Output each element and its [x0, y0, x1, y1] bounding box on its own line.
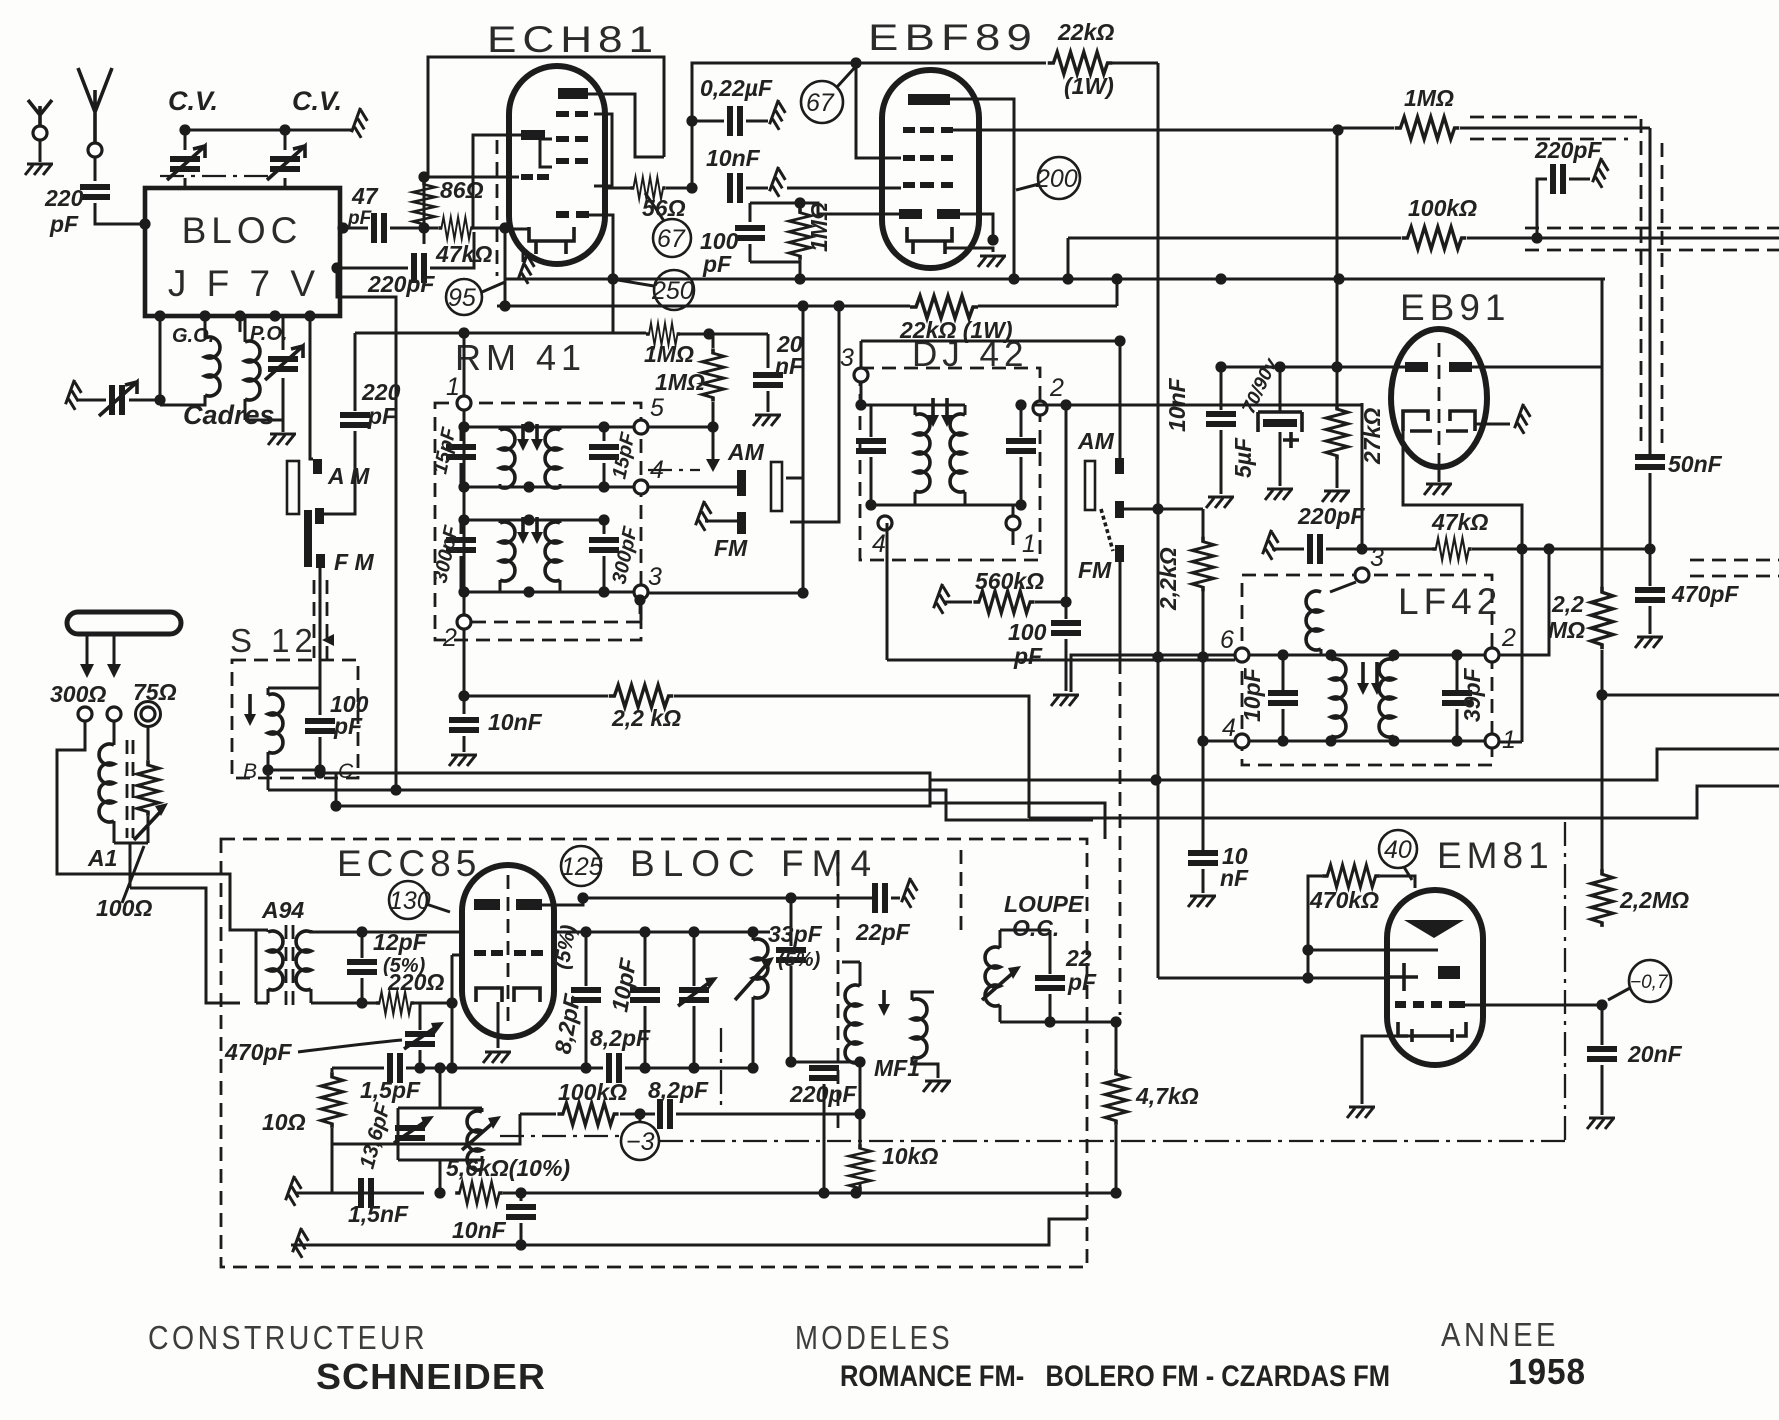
AF line right	[1602, 694, 1779, 697]
svg-text:O.C.: O.C.	[1012, 915, 1059, 941]
g2 wire left	[856, 63, 901, 158]
terminal 6	[1235, 648, 1249, 662]
svg-text:33pF: 33pF	[768, 921, 823, 947]
wire 5 to grid resistor	[648, 426, 713, 429]
AVC return line	[946, 749, 1779, 780]
diode cathodes	[1403, 411, 1475, 431]
capacitor 10pF	[1282, 655, 1285, 690]
contact AM	[1115, 458, 1124, 474]
svg-text:220pF: 220pF	[367, 271, 435, 297]
resistor 47k ohm det	[1432, 538, 1471, 560]
variable capacitor cadres	[112, 385, 122, 415]
S12 link top	[268, 687, 320, 690]
svg-text:EB91: EB91	[1400, 287, 1511, 328]
resistor 56 ohm	[604, 187, 632, 190]
resistor 100k bias	[520, 1113, 556, 1116]
anode bar	[908, 94, 950, 105]
bloc output stub 2 + capacitor 220pF	[340, 267, 408, 270]
coil 2b	[545, 522, 560, 581]
terminal 2	[1033, 401, 1047, 415]
grid dashes row2	[556, 136, 569, 142]
svg-text:EBF89: EBF89	[868, 17, 1038, 58]
A94 secondary coil	[296, 931, 311, 990]
variable capacitor C.V. 1	[184, 130, 187, 188]
svg-text:C.V.: C.V.	[168, 86, 218, 116]
arrows 1	[523, 424, 537, 444]
grid in wires	[1158, 950, 1438, 978]
terminal 75	[141, 707, 155, 721]
svg-text:560kΩ: 560kΩ	[975, 568, 1044, 594]
bottom rail	[291, 1219, 1087, 1245]
circle 67b	[801, 81, 843, 123]
svg-text:6: 6	[1220, 626, 1234, 654]
resistor 100k ohm	[1402, 227, 1467, 249]
cathode to ground wire	[945, 248, 993, 252]
AM feed wire	[1119, 341, 1122, 458]
svg-text:125: 125	[561, 853, 603, 881]
pot arrow	[134, 810, 162, 840]
capacitor 470pF trim	[419, 1003, 422, 1030]
svg-text:40: 40	[1384, 836, 1412, 864]
svg-text:12pF: 12pF	[373, 929, 428, 955]
circle 250	[654, 270, 694, 310]
inner dashed partition	[837, 850, 840, 1130]
svg-text:1: 1	[1022, 530, 1036, 558]
capacitor 10nF osc	[506, 1207, 536, 1217]
hatched link	[1101, 509, 1113, 551]
capacitor 300pF right	[589, 540, 619, 550]
terminal B	[262, 764, 273, 775]
svg-text:AM: AM	[1077, 428, 1115, 454]
plus electrode	[1390, 963, 1418, 991]
svg-text:pF: pF	[1067, 969, 1097, 995]
osc tap	[439, 1068, 442, 1108]
resistor 4,7k ohm	[1105, 1069, 1127, 1125]
svg-text:100: 100	[1008, 619, 1047, 645]
svg-text:100kΩ: 100kΩ	[558, 1079, 627, 1105]
wire terminal3 down	[239, 316, 242, 332]
svg-text:1958: 1958	[1508, 1351, 1586, 1392]
g wire from frame	[428, 176, 519, 179]
tube ECC85	[462, 865, 554, 1037]
osc tank loop	[398, 1108, 482, 1160]
anode bars	[474, 899, 500, 910]
plate wire left	[1221, 366, 1405, 369]
svg-text:RM 41: RM 41	[455, 337, 586, 378]
RF section caps	[554, 931, 770, 934]
circle 67	[653, 219, 691, 257]
cathode row drops	[580, 1062, 591, 1073]
feeder outer	[57, 721, 256, 930]
g3 dashes	[903, 127, 915, 133]
A1 core dashes	[127, 740, 133, 838]
svg-text:pF: pF	[1013, 643, 1043, 669]
feeder inner	[130, 888, 240, 1003]
diode detector route	[1403, 431, 1522, 742]
capacitor 8,2pF series	[609, 1053, 619, 1083]
circle -0,7	[1629, 960, 1671, 1002]
bus riser left to 220pF	[354, 333, 357, 411]
dash-dot bias line	[500, 1136, 1565, 1141]
row drop wire	[589, 215, 613, 334]
dipole stadium	[67, 612, 181, 634]
contact mid	[1115, 501, 1124, 518]
tube ECH81	[509, 66, 605, 264]
svg-text:LOUPE: LOUPE	[1004, 891, 1084, 917]
resistor 560k ohm	[933, 584, 953, 614]
cathode ground	[505, 228, 530, 231]
bundle line 3	[336, 780, 948, 806]
cell1 bottom wire / terminal 4	[464, 486, 634, 489]
A1 coil	[113, 721, 116, 745]
svg-text:10Ω: 10Ω	[262, 1109, 306, 1135]
grid dashes row1	[556, 111, 569, 117]
circle 200	[1038, 157, 1080, 199]
svg-text:22kΩ: 22kΩ	[1057, 19, 1114, 45]
capacitor 12pF	[361, 932, 364, 958]
shield dashes right mid	[1690, 560, 1779, 576]
terminal 1	[1006, 516, 1020, 530]
capacitor 8,2pF af	[660, 1099, 670, 1129]
svg-text:5: 5	[650, 394, 664, 422]
svg-text:pF: pF	[49, 211, 79, 237]
svg-text:F M: F M	[334, 549, 374, 575]
screen riser	[1116, 279, 1119, 306]
center dashed	[507, 875, 510, 1028]
capacitor 1,5pF	[390, 1053, 400, 1083]
cathode rail	[311, 1002, 377, 1005]
deflector bar	[1438, 966, 1460, 979]
circle 95	[446, 279, 482, 315]
g1 dashes	[903, 182, 915, 188]
screen wire right	[953, 129, 1338, 132]
dash-dot AGC line	[648, 469, 700, 471]
antenna terminal	[88, 143, 102, 157]
cathode EBF89	[907, 227, 952, 254]
triode grid bar	[521, 130, 545, 140]
terminal 300b	[107, 707, 121, 721]
terminal 2	[1485, 648, 1499, 662]
svg-text:ROMANCE FM- BOLERO FM - CZAR: ROMANCE FM- BOLERO FM - CZARDAS FM	[840, 1360, 1390, 1393]
S12 dashed box	[232, 660, 358, 778]
center dashed	[1438, 343, 1441, 478]
svg-text:86Ω: 86Ω	[440, 177, 484, 203]
svg-text:0,22µF: 0,22µF	[700, 75, 773, 101]
node row top	[1249, 654, 1485, 657]
terminal 3	[1355, 568, 1369, 582]
svg-text:10pF: 10pF	[1239, 667, 1265, 722]
resistor 470k ohm	[1322, 865, 1380, 887]
svg-text:CONSTRUCTEUR: CONSTRUCTEUR	[148, 1319, 428, 1356]
svg-text:220Ω: 220Ω	[387, 969, 444, 995]
svg-text:22pF: 22pF	[855, 919, 911, 945]
target triangle	[1404, 920, 1464, 938]
B+ dropper vertical	[1157, 63, 1160, 978]
capacitor 300pF left	[446, 540, 476, 550]
top coupling wire	[692, 63, 856, 188]
wire terminal5 down to AM switch	[309, 316, 312, 452]
B+ bus	[497, 305, 1117, 308]
resistor 2,2M ohm em	[1591, 869, 1613, 927]
svg-text:pF: pF	[333, 713, 363, 739]
node row bottom	[1249, 740, 1485, 743]
terminal 2	[457, 615, 471, 629]
wire from 4	[1203, 740, 1235, 743]
cathode ground em	[1362, 1036, 1412, 1104]
lower dashes row	[556, 211, 569, 218]
svg-text:S 12: S 12	[230, 622, 318, 659]
FM bar contact	[304, 510, 312, 567]
svg-text:AM: AM	[727, 439, 765, 465]
svg-text:2: 2	[1049, 374, 1064, 402]
dash-dot gang line	[160, 175, 272, 177]
resistor 1M ohm AVC	[646, 323, 680, 345]
svg-text:220pF: 220pF	[1297, 503, 1365, 529]
anode bar	[558, 88, 588, 99]
svg-text:470pF: 470pF	[1671, 581, 1739, 607]
svg-text:J F 7 V: J F 7 V	[168, 263, 320, 304]
svg-text:470pF: 470pF	[224, 1039, 292, 1065]
svg-text:A94: A94	[261, 897, 304, 923]
A94 primary coil	[256, 930, 268, 1003]
cathode ground	[497, 1002, 500, 1048]
svg-text:10nF: 10nF	[488, 709, 543, 735]
svg-text:2: 2	[1501, 624, 1516, 652]
svg-text:BLOC FM4: BLOC FM4	[630, 843, 879, 884]
svg-text:95: 95	[448, 284, 476, 312]
DJ42 dashed box	[860, 368, 1040, 560]
svg-text:300Ω: 300Ω	[50, 681, 106, 707]
svg-text:SCHNEIDER: SCHNEIDER	[316, 1356, 546, 1397]
detector node drop	[1060, 399, 1071, 410]
svg-text:220: 220	[361, 379, 401, 405]
ECH81 frame wire	[428, 57, 664, 177]
node top row	[861, 404, 965, 407]
svg-text:MΩ: MΩ	[1548, 617, 1585, 643]
grid out wire	[1465, 1004, 1602, 1007]
antenna mast symbol	[78, 68, 112, 146]
grid dashed line	[496, 140, 499, 276]
grid dashes row3	[556, 158, 569, 164]
FM drop	[319, 568, 322, 688]
capacitor 100pF det	[1051, 623, 1081, 633]
resistor 10 ohm	[331, 1068, 334, 1072]
capacitor 20nF	[767, 334, 770, 368]
variable capacitor P.O.	[245, 316, 283, 420]
svg-text:A1: A1	[87, 845, 117, 871]
coil 1b	[545, 429, 560, 488]
switch slider	[1085, 461, 1095, 510]
HT bus mid	[505, 229, 1605, 306]
capacitor 22pF loupe	[1049, 930, 1052, 974]
resistor 2,2k ohm IF	[1202, 509, 1205, 537]
earth terminal	[33, 126, 47, 140]
anode wire	[950, 99, 1014, 279]
MF1 primary coil	[845, 985, 860, 1063]
svg-text:ECC85: ECC85	[337, 843, 481, 884]
svg-text:67: 67	[657, 225, 686, 253]
grid return arrow	[712, 427, 715, 462]
C drop	[319, 770, 322, 773]
wire from 1	[1499, 741, 1522, 744]
svg-text:1,5pF: 1,5pF	[360, 1077, 421, 1103]
svg-text:−3: −3	[626, 1128, 655, 1156]
svg-text:pF: pF	[367, 403, 397, 429]
secondary coil a	[1330, 655, 1333, 741]
svg-text:MODELES: MODELES	[795, 1319, 953, 1356]
svg-text:220: 220	[44, 185, 84, 211]
svg-text:10nF: 10nF	[452, 1217, 507, 1243]
grid drop	[452, 955, 463, 1068]
svg-text:20nF: 20nF	[1627, 1041, 1683, 1067]
capacitor 220pF mf	[809, 1068, 839, 1078]
cathode brackets	[476, 988, 540, 1002]
shielded vertical wire	[1649, 128, 1652, 455]
trimmer cap	[693, 932, 696, 986]
svg-text:4,7kΩ: 4,7kΩ	[1135, 1083, 1199, 1109]
switch risers	[786, 306, 803, 593]
resistor 220 ohm	[376, 992, 414, 1014]
S12 arrow	[248, 694, 252, 718]
terminal 3	[854, 368, 868, 382]
wire 4 to AM contact	[648, 486, 737, 489]
capacitor 15pF right	[589, 447, 619, 457]
osc coil	[467, 1111, 482, 1170]
BLOC JF7V box	[145, 188, 340, 316]
earth prongs	[28, 100, 52, 127]
svg-text:1: 1	[1502, 726, 1516, 754]
g2 dashes	[903, 155, 915, 161]
bundle line 1	[320, 773, 1105, 839]
capacitor 220pF tuner	[340, 415, 370, 425]
B drop	[267, 770, 270, 790]
capacitor 22pF	[875, 883, 885, 913]
svg-text:3: 3	[840, 344, 854, 372]
svg-text:1MΩ: 1MΩ	[806, 202, 832, 252]
svg-text:BLOC: BLOC	[182, 210, 303, 251]
svg-text:3: 3	[1370, 544, 1384, 572]
ground left of line	[296, 1192, 342, 1195]
cell2 top wire	[464, 519, 604, 522]
RF coil	[752, 932, 755, 940]
loupe coil	[985, 947, 1000, 1006]
svg-text:5µF: 5µF	[1230, 437, 1256, 478]
S12 coil	[267, 688, 270, 770]
svg-text:MF1: MF1	[874, 1055, 920, 1081]
svg-text:−0,7: −0,7	[1630, 972, 1669, 993]
resistor 27k ohm	[1336, 130, 1339, 404]
anode bus C	[355, 333, 768, 334]
bundle line 2	[268, 790, 1093, 820]
resistor 22k ohm (1W) top	[1048, 52, 1113, 74]
svg-text:nF: nF	[775, 353, 804, 379]
wire cap to bloc	[95, 203, 145, 224]
mid out wire	[1124, 508, 1203, 511]
FM contact ground	[695, 501, 715, 531]
tube EBF89	[882, 70, 979, 268]
switch slider mid	[771, 462, 782, 511]
terminal 4	[1235, 734, 1249, 748]
capacitor 220pF antenna	[80, 187, 110, 197]
svg-text:B: B	[243, 760, 257, 783]
resistor 100 ohm	[147, 727, 150, 760]
coupling arrows	[1363, 662, 1377, 688]
AM contact nub	[737, 470, 746, 496]
coil 1a	[499, 427, 502, 487]
resistor 1M ohm top right	[1395, 117, 1460, 139]
primary coil DJ42	[914, 405, 917, 505]
secondary coil DJ42	[964, 405, 967, 505]
AF return line	[1029, 786, 1779, 818]
resistor 1M ohm grid	[702, 348, 724, 401]
grid dashes EM81	[1395, 1001, 1406, 1008]
osc line	[332, 1067, 753, 1070]
bloc bottom terminals	[154, 310, 165, 321]
svg-text:3: 3	[648, 563, 662, 591]
AVC drop riser	[1067, 238, 1070, 279]
heptode grid dashes	[521, 174, 533, 180]
detector feed wire	[1047, 404, 1362, 407]
svg-text:200: 200	[1035, 165, 1078, 193]
circle 40	[1379, 830, 1417, 868]
IF transformer block RM41 dashed box	[435, 403, 641, 640]
svg-text:pF: pF	[347, 208, 373, 229]
plate bars	[1405, 362, 1428, 372]
svg-text:2,2: 2,2	[1551, 591, 1584, 617]
svg-text:22: 22	[1065, 945, 1092, 971]
terminal 4	[878, 516, 892, 530]
resistor 10k ohm	[849, 1144, 871, 1192]
secondary cap	[1020, 405, 1023, 437]
arrows 2	[523, 517, 537, 537]
svg-text:2: 2	[442, 624, 457, 652]
svg-text:10nF: 10nF	[706, 145, 761, 171]
grid dashes	[474, 950, 486, 956]
terminal 1	[1485, 734, 1499, 748]
wire to 6	[1071, 655, 1235, 692]
contact FM	[1115, 545, 1124, 562]
resistor 1M ohm diode load	[789, 208, 811, 260]
svg-text:4: 4	[1222, 714, 1236, 742]
wire mid	[332, 1114, 520, 1144]
grid rows frame wire	[540, 114, 612, 186]
primary coil	[1330, 582, 1356, 592]
svg-text:39pF: 39pF	[1459, 667, 1485, 722]
secondary coil b	[1393, 655, 1396, 741]
svg-text:470kΩ: 470kΩ	[1309, 887, 1379, 913]
detector node riser	[1361, 403, 1364, 549]
diode2 wire to ground	[960, 214, 993, 240]
FM drop wire	[1119, 562, 1122, 660]
feedback wire from 2	[1499, 549, 1549, 655]
triode grid wire	[473, 135, 521, 229]
resistor 47k ohm	[438, 217, 473, 239]
tube EM81	[1387, 890, 1483, 1065]
svg-text:250: 250	[651, 277, 694, 305]
capacitor 100pF S12	[305, 721, 335, 731]
FM contact nub	[737, 512, 746, 534]
switch slider left	[287, 461, 299, 514]
terminal 5	[634, 420, 648, 434]
capacitor 470pF	[1649, 549, 1652, 586]
svg-text:56Ω: 56Ω	[642, 195, 686, 221]
center ground	[1438, 467, 1441, 482]
plate wire right	[1472, 279, 1602, 367]
wire CV tops	[185, 129, 352, 132]
bottom row	[871, 504, 1021, 507]
shield dashes top right	[1470, 117, 1637, 139]
A94 core dashes	[286, 925, 293, 1008]
